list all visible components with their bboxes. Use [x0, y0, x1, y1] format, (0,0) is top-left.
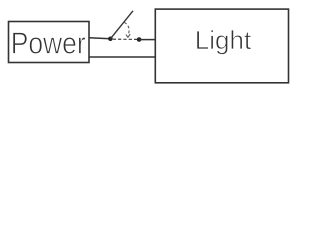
svg-text:Light: Light [195, 25, 252, 55]
wire top left [89, 38, 110, 39]
switch motion arc [124, 22, 129, 34]
switch lever [110, 11, 133, 39]
wire bottom [89, 56, 155, 58]
svg-text:Power: Power [11, 27, 86, 61]
light box [155, 9, 288, 83]
switch dashed closed-position [113, 38, 137, 40]
wire top right [139, 39, 155, 41]
power source box [9, 22, 90, 63]
switch arc arrowhead [126, 34, 130, 37]
switch contact left [108, 37, 113, 42]
switch contact right [137, 37, 142, 42]
